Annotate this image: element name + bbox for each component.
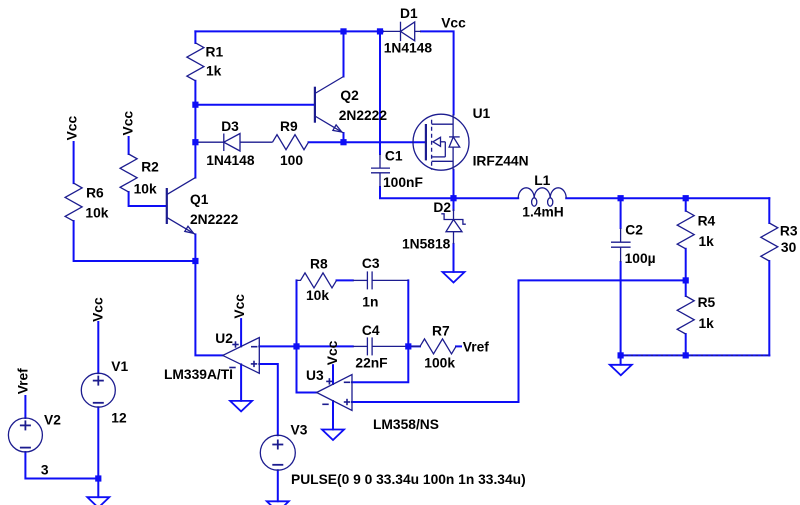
svg-text:1k: 1k (206, 64, 222, 79)
resistor R2 (120, 154, 137, 192)
svg-text:LM339A/TI: LM339A/TI (164, 367, 233, 382)
svg-text:Q2: Q2 (340, 88, 359, 103)
wire C1 top lead from bootstrap rail (379, 31, 381, 154)
svg-text:D1: D1 (400, 6, 418, 21)
svg-text:LM358/NS: LM358/NS (373, 417, 439, 432)
svg-text:Vcc: Vcc (325, 340, 340, 365)
svg-text:R8: R8 (310, 257, 328, 272)
resistor R5 (677, 296, 694, 334)
svg-text:C1: C1 (385, 149, 403, 164)
svg-text:10k: 10k (134, 182, 157, 197)
svg-text:D2: D2 (433, 200, 451, 215)
wire top rail (bootstrap node) (195, 30, 383, 32)
transistor Q2 (315, 77, 344, 134)
wire R1 top lead (194, 31, 196, 43)
wire R4 bottom lead (685, 249, 687, 281)
svg-text:Vcc: Vcc (91, 297, 106, 322)
node junction C4 / R7 / U3 inv (405, 343, 411, 349)
wire D1 anode to Vcc corner, down to U1 drain (421, 31, 454, 114)
wire R6 bottom to Q1 emitter node (74, 221, 196, 261)
resistor R8 (297, 273, 337, 288)
wire V2 top from Vref label (24, 396, 26, 418)
wire R2 top lead from Vcc (128, 137, 130, 154)
svg-text:3: 3 (41, 462, 49, 477)
wire U2 V- pin to ground (240, 364, 242, 400)
svg-text:C4: C4 (362, 323, 380, 338)
svg-text:1N4148: 1N4148 (384, 40, 433, 55)
node junction C1 top / top rail (377, 28, 383, 34)
wire R6 top lead from Vcc (73, 142, 75, 183)
wire Q1 collector vertical (194, 142, 196, 177)
diode D2 (schottky) (441, 209, 466, 244)
svg-text:100k: 100k (424, 355, 455, 370)
wire C2 top lead (620, 198, 622, 228)
wire RC network left vertical (296, 280, 298, 346)
svg-text:22nF: 22nF (355, 355, 387, 370)
node junction R9 / Q2 emitter / gate (340, 139, 346, 145)
wire V1 bottom to ground node (97, 407, 99, 497)
svg-text:IRFZ44N: IRFZ44N (473, 153, 529, 168)
svg-text:100nF: 100nF (383, 175, 423, 190)
capacitor C3 (353, 271, 409, 289)
inductor L1 (518, 188, 566, 206)
svg-text:1.4mH: 1.4mH (522, 205, 563, 220)
svg-text:V2: V2 (44, 413, 61, 428)
ground below V1 V2 (87, 497, 109, 505)
svg-text:R4: R4 (698, 214, 716, 229)
voltage source V2 (8, 418, 42, 452)
svg-text:100: 100 (280, 153, 303, 168)
wire U1 source to switch node (453, 170, 455, 198)
resistor R1 (187, 43, 204, 81)
ground below V3 (267, 501, 289, 505)
wire R8 right to C3 (337, 279, 353, 281)
svg-text:U2: U2 (215, 331, 233, 346)
svg-text:1k: 1k (699, 316, 715, 331)
op-amp U3 (317, 375, 352, 411)
svg-text:100µ: 100µ (625, 251, 656, 266)
svg-text:U1: U1 (473, 106, 491, 121)
wire R3 bottom lead (768, 261, 770, 355)
svg-text:10k: 10k (85, 206, 108, 221)
wire bottom ground rail (621, 354, 770, 356)
wire C4 right to R7 (408, 345, 420, 347)
wire V1 top from Vcc label (97, 322, 99, 373)
ground below D2 (443, 272, 465, 283)
wire R5 bottom lead (685, 334, 687, 355)
wire R9 to gate node (309, 141, 344, 143)
svg-text:D3: D3 (221, 119, 239, 134)
node junction Q1 emitter / R6 / U2 out (192, 258, 198, 264)
wire U2 output to Q1 emitter node (195, 261, 222, 355)
wire V3 bottom to ground (277, 470, 279, 501)
resistor R6 (65, 183, 82, 221)
svg-text:R3: R3 (780, 223, 798, 238)
node junction C2 bottom / ground rail (618, 352, 624, 358)
node junction Q2 base / R1 column (192, 102, 198, 108)
voltage source V1 (81, 373, 115, 407)
svg-text:1N5818: 1N5818 (402, 237, 451, 252)
svg-text:L1: L1 (534, 173, 550, 188)
svg-text:R9: R9 (280, 119, 298, 134)
ground below U2 (230, 401, 252, 412)
svg-text:C3: C3 (362, 256, 380, 271)
node junction R4 top (683, 195, 689, 201)
wire Q2 collector vertical (343, 31, 345, 76)
svg-text:2N2222: 2N2222 (190, 212, 239, 227)
wire U2 inverting input row (259, 345, 353, 347)
node junction D3 / R1 column (192, 139, 198, 145)
wire D2 top lead (453, 198, 455, 210)
resistor R3 (761, 223, 778, 261)
op-amp U2 (comparator) (223, 338, 260, 374)
svg-text:R1: R1 (206, 45, 224, 60)
voltage source V3 (260, 435, 295, 470)
node junction V1 minus / V2 (95, 475, 101, 481)
ground rail dashes (621, 354, 770, 356)
wire R1 bottom lead through junctions to Q1 collector node (194, 81, 196, 142)
diode D3 (195, 134, 272, 152)
wire RC network right vertical (407, 280, 409, 346)
svg-text:Vcc: Vcc (121, 111, 136, 136)
capacitor C1 (371, 154, 390, 187)
svg-text:2N2222: 2N2222 (339, 108, 388, 123)
svg-text:R6: R6 (86, 185, 104, 200)
wire R7 right stub to Vref (456, 345, 461, 347)
wire U3 V- pin to ground (332, 401, 334, 429)
svg-text:1k: 1k (699, 234, 715, 249)
svg-text:1n: 1n (362, 294, 378, 309)
svg-text:U3: U3 (306, 368, 324, 383)
svg-text:1N4148: 1N4148 (206, 153, 255, 168)
wire Q1 emitter vertical (194, 234, 196, 261)
wire U3 output up to C4 node (297, 346, 317, 392)
wire R2 bottom to Q1 base (129, 192, 167, 206)
wire U3 V+ pin (332, 365, 334, 384)
node junction C2 top (618, 195, 624, 201)
svg-text:30: 30 (781, 240, 797, 255)
svg-text:Vref: Vref (463, 339, 489, 354)
wire feedback from divider to U3 (352, 280, 686, 402)
wire switch node to L1 (454, 197, 519, 199)
wire R5 top lead (685, 280, 687, 296)
wire U2 V+ pin (240, 319, 242, 346)
diode D1 (383, 22, 421, 41)
svg-text:R2: R2 (141, 160, 159, 175)
svg-text:R7: R7 (432, 324, 450, 339)
wire C2 ground stub (620, 355, 622, 364)
svg-text:10k: 10k (306, 288, 329, 303)
wire Q2 base (195, 104, 314, 106)
wire U3 inverting input to C4 node (352, 346, 408, 382)
svg-text:V1: V1 (111, 359, 128, 374)
wire C2 bottom lead (620, 262, 622, 355)
svg-text:Vcc: Vcc (441, 16, 466, 31)
resistor R9 (273, 135, 309, 150)
transistor Q1 (167, 178, 196, 235)
node junction R4 R5 divider (683, 277, 689, 283)
ground below C2 (610, 365, 632, 376)
svg-text:Vcc: Vcc (232, 294, 247, 319)
capacitor C2 (611, 228, 631, 262)
node junction Q2 collector / top rail (340, 28, 346, 34)
svg-text:Q1: Q1 (190, 192, 209, 207)
svg-text:Vcc: Vcc (65, 116, 80, 141)
wire C1 bottom lead to switch node (380, 187, 454, 198)
wire Q2 emitter vertical (343, 133, 345, 142)
svg-text:Vref: Vref (16, 368, 31, 394)
node junction switch node (450, 195, 456, 201)
wire D2 bottom lead to ground (453, 244, 455, 272)
wire V2 bottom to ground node (25, 452, 98, 479)
node junction R5 bottom / ground rail (683, 352, 689, 358)
resistor R4 (677, 211, 694, 249)
mosfet U1 (413, 114, 469, 170)
wire U2 noninverting input to V3 (259, 364, 278, 435)
svg-text:C2: C2 (625, 223, 643, 238)
wire gate node to U1 gate (344, 141, 426, 143)
wire R4 top lead (685, 198, 687, 211)
svg-text:PULSE(0 9 0 33.34u 100n 1n 33.: PULSE(0 9 0 33.34u 100n 1n 33.34u) (291, 472, 526, 487)
svg-text:12: 12 (111, 410, 127, 425)
wire L1 to output rail (566, 197, 769, 199)
node junction U2 inv input / U3 out (293, 343, 299, 349)
svg-text:V3: V3 (291, 423, 308, 438)
wire output rail corner down to R3 (768, 198, 770, 223)
ground below U3 (322, 430, 344, 441)
resistor R7 (408, 339, 456, 354)
svg-text:R5: R5 (698, 295, 716, 310)
capacitor C4 (353, 337, 409, 355)
